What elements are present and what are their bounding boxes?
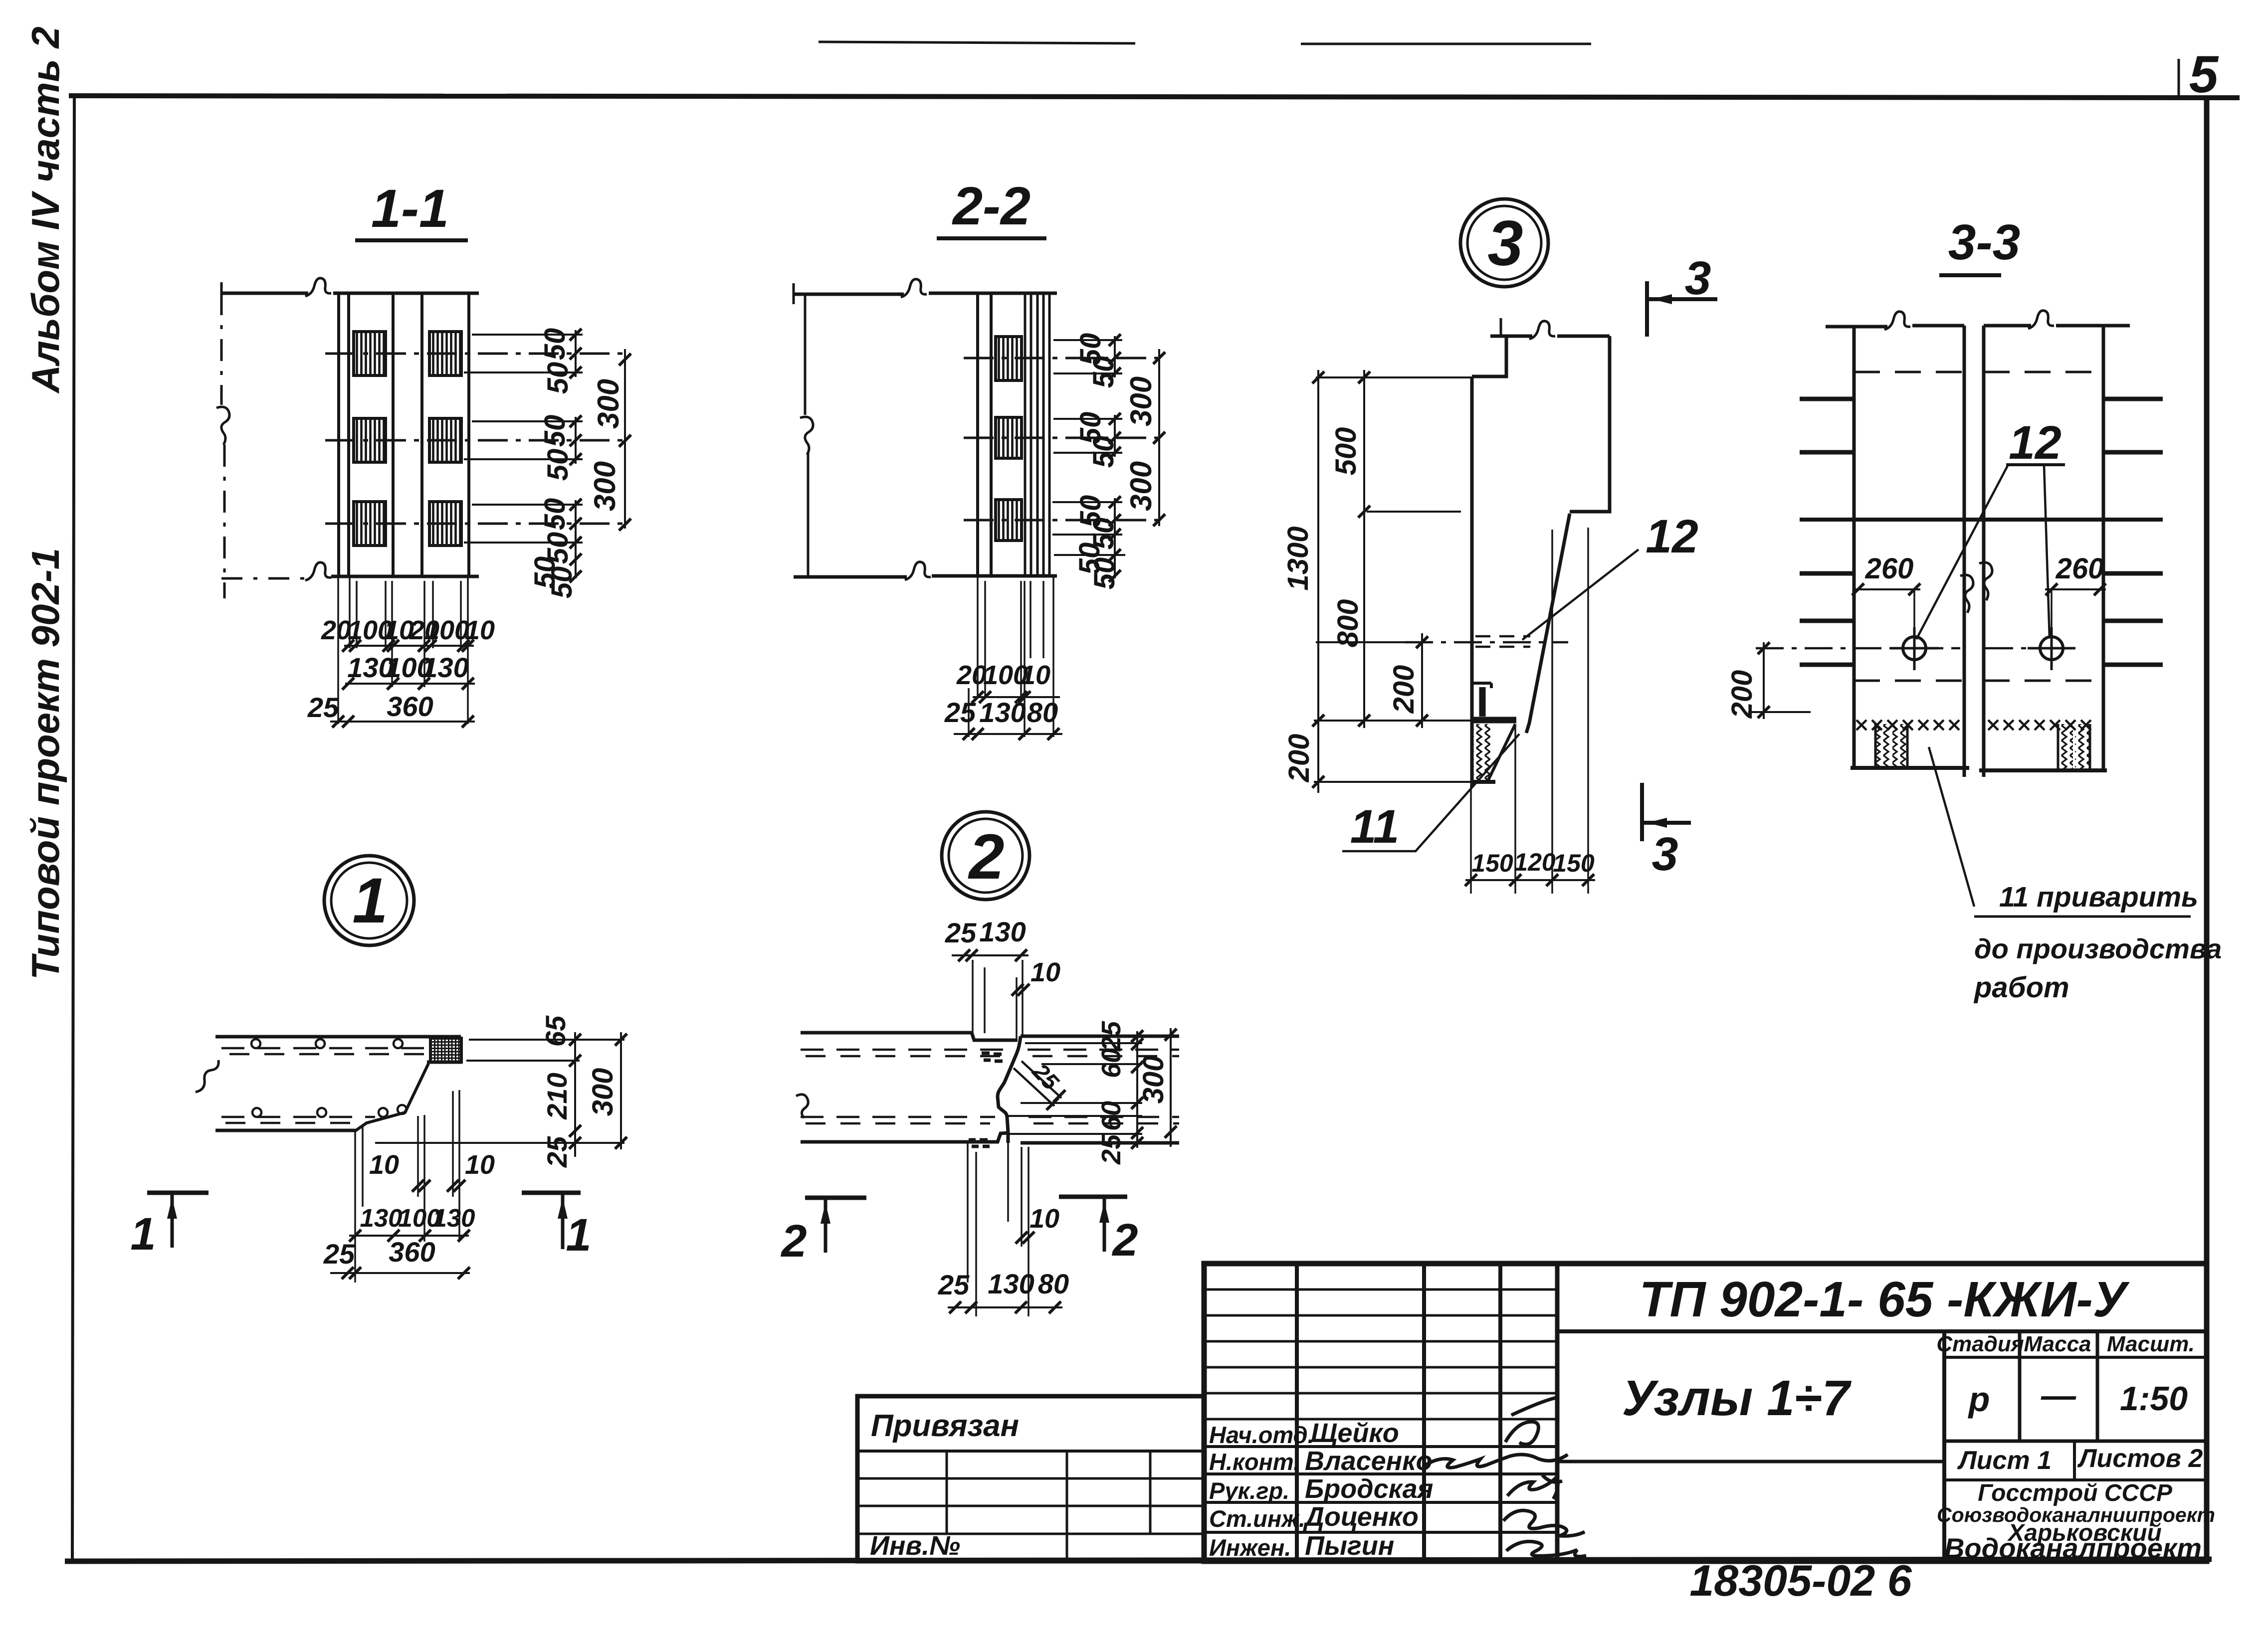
2-2 hatched block row2: [996, 417, 1022, 458]
signature squiggle 5: [1506, 1541, 1586, 1556]
detail 2 lower extension lines: [968, 1143, 1029, 1316]
section 3 top left tick: [1500, 318, 1502, 337]
line under sheet title: [1557, 1460, 1944, 1464]
scan artifact line top right: [1301, 43, 1591, 45]
detail 2 right slab lower dashes: [1029, 1116, 1179, 1118]
detail 1 dim row 25 360: [330, 1272, 470, 1274]
1-1 dim row1 line: [344, 645, 474, 647]
3-3 upper hidden dashed line: [1854, 371, 2103, 373]
svg-text:3: 3: [1487, 208, 1523, 279]
detail 1 upper rebar circles: [251, 1039, 260, 1048]
svg-text:1: 1: [130, 1209, 156, 1260]
detail 2 upper extension lines: [973, 960, 1023, 1040]
1-1 bottom edge break: [305, 562, 331, 580]
svg-text:200: 200: [1388, 665, 1420, 714]
signature squiggle 2: [1426, 1455, 1568, 1467]
detail 2 left slab top edge: [801, 1033, 1018, 1040]
1-1 left line break: [216, 407, 229, 445]
svg-text:12: 12: [1646, 510, 1698, 563]
3-3 gap break left line: [1960, 575, 1973, 613]
line under document number: [1557, 1329, 2207, 1333]
signature squiggle 4: [1503, 1510, 1585, 1536]
3-3 right column bottom edge: [1979, 768, 2107, 772]
title block thin row lines: [1204, 1289, 1557, 1419]
detail 2 left slab bottom edge: [801, 1133, 1008, 1142]
svg-text:Н.конт.: Н.конт.: [1209, 1449, 1300, 1475]
svg-text:10: 10: [465, 1150, 495, 1180]
1-1 row2 50-dim line: [575, 417, 577, 464]
detail 2 left slab upper dashes: [801, 1049, 1013, 1051]
section 3 bolt hidden dashes: [1475, 636, 1530, 647]
row line under Лист: [1944, 1478, 2207, 1481]
1-1 left dashed extent line: [221, 293, 224, 598]
svg-text:20: 20: [321, 615, 351, 645]
svg-text:10: 10: [465, 615, 495, 645]
detail 1 right dim outer line: [620, 1032, 622, 1149]
frame bottom border: [65, 1559, 2212, 1561]
section 3 corbel angle horizontal flange: [1473, 717, 1516, 724]
svg-text:Доценко: Доценко: [1303, 1502, 1419, 1532]
detail 1 slab top edge: [215, 1035, 461, 1039]
detail 1 right dim inner line: [574, 1032, 576, 1157]
3-3 leader 12 to right bolt: [2044, 466, 2050, 638]
3-3 weld x-row right: [1988, 720, 2091, 730]
svg-text:10: 10: [369, 1150, 399, 1180]
1-1 wall vertical x788: [392, 293, 395, 576]
svg-text:2-2: 2-2: [952, 176, 1031, 236]
1-1 hatched block row1 left: [354, 332, 386, 375]
2-2 row1 axis dash-dot: [964, 357, 1162, 360]
svg-text:Лист 1: Лист 1: [1957, 1446, 2052, 1475]
detail 1 circle: [324, 856, 414, 945]
2-2 top edge break: [901, 279, 927, 297]
row line under values: [1944, 1440, 2207, 1443]
svg-text:Листов 2: Листов 2: [2077, 1444, 2203, 1473]
3-3 label 12 underline: [2006, 463, 2065, 466]
3-3 dim 200 left: [1763, 642, 1765, 719]
Лист/Листов divider: [2073, 1441, 2076, 1480]
title block column line x3122: [1555, 1264, 1560, 1561]
2-2 dim row2 line: [954, 733, 1062, 735]
svg-text:Альбом IV часть 2: Альбом IV часть 2: [23, 26, 67, 394]
svg-text:Власенко: Власенко: [1305, 1446, 1433, 1476]
detail 2 right dim outer line: [1170, 1028, 1172, 1147]
svg-text:200: 200: [1283, 734, 1315, 783]
1-1 wall vertical x679: [337, 293, 340, 576]
detail 2 dim row 25 130 80: [948, 1306, 1062, 1308]
title block column line x3008: [1498, 1264, 1502, 1561]
svg-text:Бродская: Бродская: [1305, 1474, 1433, 1504]
section 3 corbel angle top lip: [1472, 683, 1491, 688]
svg-text:25: 25: [938, 1269, 970, 1300]
svg-text:80: 80: [1027, 697, 1058, 728]
svg-text:120: 120: [1514, 848, 1556, 876]
svg-text:ТП 902-1- 65 -КЖИ-У: ТП 902-1- 65 -КЖИ-У: [1639, 1272, 2130, 1327]
3-3 bolt left: [1903, 637, 1926, 660]
detail 1 dim 10 left: [412, 1180, 424, 1192]
svg-text:260: 260: [2056, 552, 2104, 585]
title block column line x2600: [1295, 1264, 1299, 1561]
svg-text:50: 50: [542, 449, 574, 481]
svg-text:Стадия: Стадия: [1936, 1332, 2024, 1356]
detail 1 dim row 130 100 130: [349, 1235, 469, 1237]
svg-text:300: 300: [1137, 1056, 1170, 1104]
svg-text:1:50: 1:50: [2120, 1380, 2188, 1418]
frame right border: [2204, 98, 2210, 1561]
detail 1 anchor mesh block: [430, 1038, 461, 1062]
svg-text:130: 130: [360, 1204, 402, 1232]
svg-text:50: 50: [542, 362, 574, 394]
2-2 row3 edge extension lines: [1052, 502, 1122, 535]
section 3 top edge break: [1529, 321, 1555, 339]
1-1 row2 edge extension lines: [464, 421, 583, 459]
2-2 bottom edge extension line: [1054, 554, 1125, 556]
svg-text:Привязан: Привязан: [871, 1409, 1019, 1443]
svg-text:3-3: 3-3: [1948, 214, 2021, 270]
svg-text:25: 25: [323, 1238, 355, 1270]
1-1 row1 50-dim line: [575, 330, 577, 377]
svg-text:10: 10: [1021, 660, 1050, 690]
svg-text:260: 260: [1865, 552, 1914, 585]
detail 2 right extension lines: [1008, 1043, 1142, 1134]
1-1 row2 axis dash-dot: [325, 439, 623, 442]
detail 1 left break: [196, 1060, 218, 1092]
2-2 left extent line: [805, 294, 808, 576]
3-3 lower hidden dashed line: [1854, 680, 2103, 682]
svg-text:Водоканалпроект: Водоканалпроект: [1944, 1532, 2202, 1564]
svg-text:50: 50: [1088, 557, 1121, 590]
svg-text:Госстрой СССР: Госстрой СССР: [1978, 1480, 2173, 1506]
svg-text:360: 360: [389, 1236, 435, 1268]
svg-text:3: 3: [1685, 252, 1711, 305]
1-1 bottom 50+50 ticks: [570, 553, 582, 565]
svg-text:25: 25: [307, 692, 339, 723]
section 2-2 title underline: [937, 236, 1046, 240]
2-2 bottom 50 dim: [1114, 535, 1116, 578]
vertical line right of title cell: [1942, 1331, 1946, 1561]
detail 2 slanted 25 dim lines: [1014, 1061, 1061, 1106]
1-1 dim row2 line: [345, 683, 475, 685]
svg-text:Инв.№: Инв.№: [870, 1531, 960, 1561]
detail 1 top extension line: [469, 1039, 624, 1041]
svg-text:р: р: [1968, 1380, 1990, 1419]
2-2 row1 edge extension lines: [1053, 340, 1122, 373]
svg-text:Узлы 1÷7: Узлы 1÷7: [1622, 1370, 1852, 1426]
svg-text:18305-02 6: 18305-02 6: [1689, 1556, 1912, 1605]
1-1 300-dim line: [624, 349, 626, 529]
svg-text:50: 50: [539, 415, 571, 447]
detail 1 65-level extension line: [466, 1060, 580, 1062]
detail 2 left slab lower dashes: [801, 1116, 995, 1118]
svg-text:50: 50: [1087, 356, 1120, 388]
section 3 left extension lines: [1314, 377, 1491, 782]
2-2 wall vertical x1960: [976, 293, 979, 576]
section 3 marker top: [1645, 281, 1649, 337]
section 3 leader 12: [1522, 550, 1639, 640]
svg-text:100: 100: [424, 615, 469, 645]
svg-text:50: 50: [539, 328, 571, 361]
1-1 row3 50-dim line: [575, 500, 577, 578]
svg-text:2: 2: [968, 821, 1004, 893]
detail 2 section marker right: [1059, 1195, 1127, 1199]
detail 2 section marker left: [805, 1196, 866, 1200]
svg-text:Пыгин: Пыгин: [1305, 1531, 1394, 1561]
detail 2 circle: [942, 812, 1030, 900]
svg-text:60: 60: [1096, 1101, 1126, 1131]
svg-text:360: 360: [387, 691, 433, 722]
scan artifact line top left: [819, 42, 1135, 43]
svg-text:25: 25: [541, 1136, 573, 1168]
section 3 wedge diagonal: [1487, 724, 1515, 782]
sheet number tick: [2178, 59, 2180, 98]
signature squiggle 3: [1507, 1475, 1562, 1499]
1-1 hatched block row2 right: [429, 418, 461, 462]
detail 2 right slab bottom edge: [1021, 1141, 1179, 1145]
svg-text:130: 130: [988, 1268, 1034, 1299]
svg-text:130: 130: [979, 916, 1026, 947]
svg-text:25: 25: [1096, 1021, 1126, 1052]
svg-text:300: 300: [587, 1068, 619, 1116]
svg-text:130: 130: [432, 1204, 475, 1232]
3-3 right side bars: [2103, 399, 2163, 665]
svg-text:25: 25: [944, 697, 976, 728]
title block column line x2855: [1422, 1264, 1426, 1561]
section 3 wall top edge: [1490, 335, 1610, 338]
header column lines: [2020, 1331, 2097, 1441]
2-2 wall verticals right cluster: [1025, 293, 1049, 576]
2-2 row2 50-dim line: [1114, 415, 1116, 457]
svg-text:Щейко: Щейко: [1311, 1418, 1399, 1448]
section 3 bearing wedge serration: [1473, 724, 1490, 781]
section 3 dim 200 corbel: [1421, 633, 1423, 728]
section 3 left face: [1470, 376, 1474, 786]
2-2 hatched block row3: [996, 500, 1022, 541]
section 3 sloped face: [1526, 514, 1570, 733]
signature squiggle 1: [1505, 1398, 1556, 1445]
detail 1 section marker right: [522, 1191, 581, 1195]
3-3 right column outline: [1984, 326, 2103, 777]
1-1 row1 edge extension lines: [464, 335, 583, 372]
1-1 slab top edge: [221, 292, 479, 295]
attachment table row under Привязан: [857, 1450, 1204, 1453]
svg-text:Нач.отд.: Нач.отд.: [1209, 1422, 1314, 1448]
detail 1 lower rebar circles: [252, 1108, 261, 1117]
svg-text:300: 300: [592, 379, 625, 429]
detail 1 dim 10 right: [447, 1180, 459, 1192]
detail 1 joint diagonal: [355, 1064, 428, 1131]
1-1 row3 edge extension lines: [464, 505, 583, 543]
1-1 wall vertical x846: [420, 293, 423, 576]
2-2 row3 50-dim line: [1114, 498, 1116, 539]
svg-text:25: 25: [1096, 1134, 1126, 1165]
svg-text:130: 130: [979, 697, 1026, 728]
3-3 weld x-row left: [1856, 720, 1959, 730]
svg-text:12: 12: [2009, 416, 2062, 469]
svg-text:2: 2: [1111, 1215, 1138, 1266]
attachment table verticals: [947, 1451, 1150, 1534]
svg-text:11: 11: [1350, 800, 1400, 853]
svg-text:65: 65: [540, 1015, 571, 1047]
2-2 lower extension lines: [969, 576, 1053, 737]
section 3 right face: [1570, 336, 1610, 512]
1-1 wall vertical x940: [467, 293, 470, 576]
svg-text:130: 130: [422, 652, 468, 683]
section 3 corbel angle vertical flange: [1479, 687, 1486, 717]
3-3 left top break: [1884, 312, 1910, 330]
detail 1 slab bottom edge: [215, 1129, 355, 1132]
3-3 crossing bar line: [1800, 518, 2163, 522]
detail 2 joint seam line: [998, 1036, 1021, 1143]
3-3 left column bottom edge: [1851, 766, 1969, 770]
3-3 serrated strip left column: [1876, 724, 1890, 768]
svg-text:80: 80: [1038, 1268, 1069, 1299]
title block outer border: [1204, 1264, 2207, 1561]
2-2 wall vertical x1987: [990, 293, 993, 576]
svg-text:10: 10: [1030, 1204, 1059, 1234]
1-1 top left corner tick: [220, 282, 223, 303]
2-2 300-dim line: [1158, 349, 1160, 526]
2-2 top left corner tick: [793, 283, 795, 304]
svg-text:50: 50: [546, 566, 578, 599]
svg-text:Ст.инж.: Ст.инж.: [1209, 1505, 1305, 1532]
3-3 bolt right: [2040, 637, 2063, 660]
svg-text:работ: работ: [1973, 971, 2069, 1004]
section 3 bolt axis dash-dot: [1405, 641, 1568, 644]
2-2 bottom edge break: [905, 562, 931, 580]
svg-text:25: 25: [945, 917, 977, 948]
svg-text:Типовой проект 902-1: Типовой проект 902-1: [23, 548, 67, 980]
svg-text:10: 10: [1031, 957, 1060, 987]
detail 2 left slab end break: [796, 1095, 808, 1118]
2-2 row2 edge extension lines: [1053, 419, 1122, 453]
svg-text:11 приварить: 11 приварить: [1999, 881, 2198, 913]
detail 1 section marker left: [147, 1191, 208, 1195]
2-2 slab bottom edge: [794, 576, 1057, 577]
3-3 bolt axis dash-dot: [1756, 647, 2082, 650]
3-3 right column top edge: [1984, 324, 2130, 328]
svg-text:Рук.гр.: Рук.гр.: [1209, 1477, 1289, 1504]
svg-text:150: 150: [1553, 849, 1595, 877]
svg-text:1300: 1300: [1282, 526, 1314, 590]
frame left border: [72, 96, 74, 1561]
2-2 dim row1 line: [973, 696, 1060, 698]
svg-text:300: 300: [1124, 461, 1158, 511]
svg-text:1-1: 1-1: [371, 178, 449, 238]
detail 2 joint anchor dots left: [969, 1053, 1003, 1146]
detail 1 lower rebar dashes: [221, 1116, 375, 1118]
1-1 lower extension lines: [338, 576, 468, 724]
2-2 row1 50-dim line: [1114, 336, 1116, 377]
1-1 hatched block row3 right: [429, 502, 461, 546]
svg-text:200: 200: [1726, 670, 1758, 719]
1-1 hatched block row3 left: [354, 502, 386, 546]
svg-text:—: —: [2041, 1376, 2076, 1415]
svg-text:300: 300: [588, 461, 621, 511]
1-1 hatched block row1 right: [429, 332, 461, 375]
3-3 note underline: [1974, 916, 2191, 918]
frame top border: [69, 96, 2240, 98]
2-2 row2 axis dash-dot: [964, 437, 1162, 439]
svg-text:до производства: до производства: [1974, 933, 2222, 964]
3-3 right top break: [2028, 311, 2054, 329]
3-3 leader 11: [1929, 747, 1974, 907]
section 3 wedge bottom: [1472, 780, 1495, 784]
section 3 outer dim line: [1317, 370, 1319, 793]
2-2 slab top edge: [794, 293, 1057, 294]
svg-text:5: 5: [2189, 45, 2219, 104]
3-3 gap break right line: [1979, 562, 1992, 600]
1-1 row1 axis dash-dot: [325, 353, 623, 355]
svg-text:2: 2: [780, 1216, 807, 1267]
svg-text:Масса: Масса: [2024, 1332, 2091, 1356]
svg-text:Инжен.: Инжен.: [1209, 1534, 1291, 1561]
svg-text:Масшт.: Масшт.: [2107, 1332, 2195, 1356]
svg-text:1: 1: [352, 865, 388, 936]
1-1 wall vertical x699: [347, 293, 350, 576]
detail 2 top dim line: [952, 954, 1029, 956]
header row line Стадия/Масса/Масшт: [1944, 1356, 2207, 1359]
svg-text:1: 1: [566, 1210, 591, 1261]
1-1 hatched block row2 left: [354, 418, 386, 462]
svg-text:60: 60: [1096, 1048, 1126, 1078]
svg-text:210: 210: [541, 1073, 573, 1119]
detail 2 right slab upper dashes: [1028, 1049, 1179, 1051]
3-3 serrated strip right column: [2059, 724, 2073, 769]
1-1 row3 axis dash-dot: [325, 523, 623, 525]
2-2 left line break: [800, 417, 813, 455]
section 3 bottom extension lines: [1471, 528, 1588, 894]
3-3 leader 12 to left bolt: [1916, 466, 2008, 639]
svg-text:150: 150: [1471, 849, 1513, 877]
detail 1 line under anchor: [427, 1061, 462, 1064]
3-3 left side bars: [1800, 399, 1854, 665]
1-1 slab bottom dashed continuation: [221, 577, 307, 580]
svg-text:800: 800: [1332, 599, 1364, 648]
svg-text:20: 20: [956, 660, 987, 690]
detail 1 lower extension lines: [355, 1090, 459, 1283]
detail 1 upper rebar dashes: [221, 1047, 427, 1050]
section 3 marker bottom: [1640, 783, 1644, 841]
attachment table row lines: [857, 1478, 1204, 1534]
svg-text:300: 300: [1124, 376, 1158, 426]
section 3 circle: [1460, 199, 1548, 287]
detail 1 joint circle: [398, 1105, 407, 1114]
1-1 dim row3 line: [330, 721, 475, 723]
attachment table vertical mid: [1066, 1451, 1068, 1561]
2-2 hatched block row1: [996, 337, 1022, 380]
1-1 slab bottom edge: [331, 575, 479, 578]
attachment table outer: [857, 1396, 1204, 1561]
detail 2 right slab top edge: [1021, 1035, 1179, 1038]
1-1 top edge break: [305, 278, 331, 296]
3-3 left column top edge: [1826, 326, 1964, 327]
svg-text:500: 500: [1330, 427, 1362, 476]
svg-text:50: 50: [539, 498, 571, 531]
section 3 bottom dim line: [1465, 879, 1595, 881]
section 3 inner dim line: [1363, 370, 1365, 728]
detail 2 right dim inner line: [1136, 1031, 1138, 1148]
section 3-3 title underline: [1939, 273, 2001, 277]
svg-text:3: 3: [1652, 828, 1678, 881]
svg-text:50: 50: [1087, 436, 1120, 468]
2-2 row3 axis dash-dot: [964, 519, 1164, 522]
section 3 left step: [1472, 336, 1506, 376]
section 1-1 title underline: [355, 238, 468, 242]
3-3 left column outline: [1854, 326, 1964, 777]
title block staff row lines: [1204, 1447, 1557, 1532]
detail 1 bottom-25 extension line: [375, 1142, 624, 1144]
section 3 leader 11: [1342, 734, 1519, 851]
